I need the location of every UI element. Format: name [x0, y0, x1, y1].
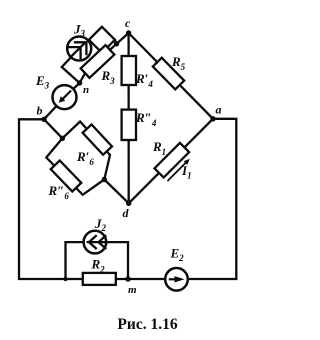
- svg-text:n: n: [83, 84, 89, 96]
- svg-text:a: a: [216, 103, 222, 117]
- svg-text:d: d: [123, 206, 130, 220]
- svg-text:b: b: [37, 104, 43, 118]
- svg-text:Рис. 1.16: Рис. 1.16: [117, 316, 177, 333]
- svg-text:m: m: [128, 284, 137, 296]
- svg-text:c: c: [125, 16, 131, 30]
